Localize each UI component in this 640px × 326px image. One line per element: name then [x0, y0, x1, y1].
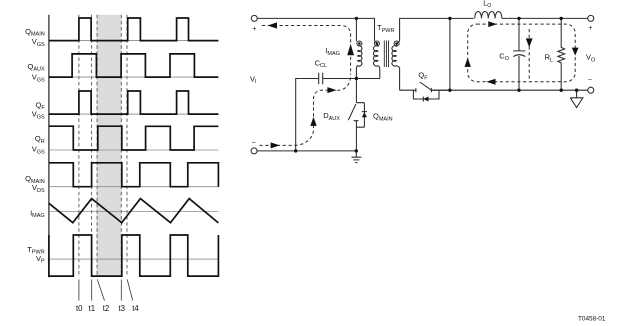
- output - terminal: [588, 87, 594, 93]
- zero line row7: [49, 258, 219, 260]
- wire L_MAG top feed: [355, 18, 357, 41]
- svg-text:+: +: [252, 26, 256, 33]
- node R_L top: [560, 17, 563, 20]
- switch Q_F: [400, 88, 450, 92]
- waveform I_MAG triangle: [49, 199, 219, 223]
- svg-text:t4: t4: [132, 304, 139, 313]
- waveform Q_MAIN V_DS: [49, 163, 219, 187]
- svg-text:t2: t2: [103, 304, 110, 313]
- svg-text:+: +: [588, 25, 592, 32]
- wire secondary node vertical: [449, 18, 451, 90]
- load resistor R_L: [558, 18, 565, 90]
- waveform Q_MAIN V_GS: [49, 18, 219, 41]
- arrow down divider: [526, 38, 533, 47]
- body diode of Q_MAIN: [362, 111, 367, 113]
- wire left clamp rail: [296, 79, 319, 151]
- body diode of Q_F: [413, 90, 439, 99]
- leader t3: [120, 280, 122, 301]
- svg-text:t3: t3: [118, 304, 125, 313]
- wire primary bottom: [356, 78, 379, 80]
- wire bottom rail primary: [257, 150, 356, 152]
- waveform Q_AUX V_GS: [49, 54, 219, 77]
- arrow left on top clamp path: [268, 22, 278, 28]
- arrow left L_O loop bottom: [486, 79, 495, 85]
- node secondary bottom: [448, 89, 451, 92]
- svg-text:T0458-01: T0458-01: [578, 316, 606, 323]
- waveform Q_F V_GS: [49, 91, 219, 114]
- node C_O top: [517, 17, 520, 20]
- node ground output: [575, 89, 578, 92]
- wire top rail primary: [257, 18, 374, 41]
- shaded interval t2-t3: [97, 15, 122, 277]
- transformer dot L_MAG: [358, 42, 361, 45]
- clamp capacitor C_CL: [319, 73, 357, 85]
- dashed current paths: [260, 24, 576, 145]
- node secondary top: [448, 17, 451, 20]
- input + terminal: [251, 15, 257, 21]
- node C_CL / drain: [355, 77, 358, 80]
- output + terminal: [588, 15, 594, 21]
- node R_L bottom: [560, 89, 563, 92]
- arrow down V_O loop right: [572, 48, 579, 56]
- transformer secondary winding: [394, 41, 399, 46]
- leader t2: [97, 280, 104, 301]
- leader t0: [78, 280, 80, 301]
- waveform Q_R V_GS: [49, 126, 219, 150]
- vertical axis: [48, 15, 50, 277]
- arrow right lower clamp path: [271, 142, 280, 148]
- dashed timeline t1: [91, 15, 93, 277]
- wire bottom rail output: [431, 89, 587, 91]
- dashed clamp path lower: [260, 74, 351, 146]
- dashed timeline t4: [126, 15, 128, 277]
- zero line row1: [49, 40, 219, 42]
- ground primary: [352, 151, 362, 163]
- arrow up L_O loop left: [465, 58, 471, 67]
- zero line row3: [49, 113, 219, 115]
- transformer core: [384, 41, 388, 68]
- dashed timeline t3: [120, 15, 122, 277]
- current arrows: [268, 21, 579, 148]
- arrow right mid clamp path: [327, 87, 336, 93]
- zero line row6: [49, 211, 219, 213]
- dashed timeline t0: [78, 15, 80, 277]
- wire Q_MAIN drain: [355, 79, 357, 103]
- node ground primary: [355, 149, 358, 152]
- output inductor L_O: [475, 11, 502, 18]
- output capacitor C_O: [513, 18, 525, 90]
- wire secondary top feed: [400, 18, 474, 41]
- svg-text:−: −: [252, 140, 256, 147]
- transformer dot primary: [376, 42, 379, 45]
- leader t1: [91, 280, 93, 301]
- svg-text:t1: t1: [89, 304, 96, 313]
- node C_O bottom: [517, 89, 520, 92]
- waveform T_PWR V_P: [49, 235, 219, 276]
- node left rail bottom: [294, 149, 297, 152]
- node top primary: [355, 17, 358, 20]
- arrow up D_AUX path: [310, 117, 316, 126]
- dashed timeline t2: [96, 15, 98, 277]
- dashed clamp path top: [262, 26, 351, 74]
- input - terminal: [251, 148, 257, 154]
- leader t4: [127, 280, 133, 301]
- svg-text:−: −: [588, 77, 592, 84]
- wire top rail output: [502, 17, 588, 19]
- switch Q_MAIN: [354, 103, 365, 151]
- magnetizing inductor L_MAG: [357, 41, 362, 46]
- arrow up I_MAG: [347, 44, 354, 55]
- zero line row4: [49, 149, 219, 151]
- dashed loop divider: [528, 29, 530, 79]
- zero line row5: [49, 186, 219, 188]
- svg-text:t0: t0: [76, 304, 83, 313]
- transformer T_PWR primary winding: [374, 41, 379, 46]
- dashed output loop: [468, 24, 576, 82]
- zero line row2: [49, 76, 219, 78]
- junction dots: [294, 17, 578, 153]
- arrow right L_O loop top: [488, 21, 497, 27]
- transformer dot secondary: [395, 42, 398, 45]
- ground output: [570, 90, 583, 107]
